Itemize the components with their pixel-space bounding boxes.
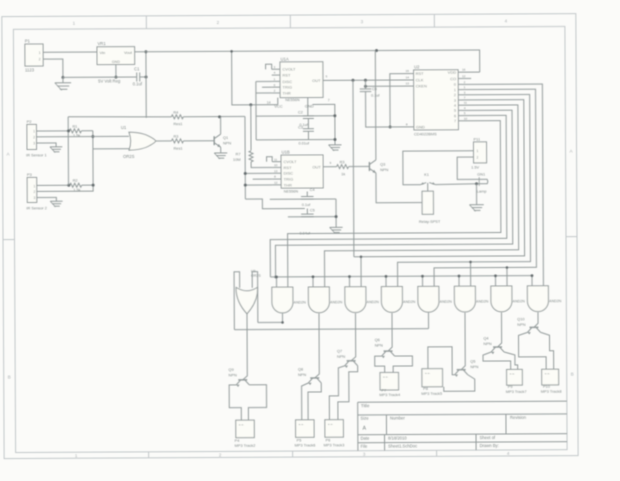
wire P1 pin2 down to ground rail [48, 59, 63, 77]
wire U2 out1 to AND5 right input [433, 89, 536, 286]
wire U2 out5 to rail drop [275, 110, 513, 277]
wire Q3 emitter down to relay coil [376, 173, 422, 203]
svg-text:15: 15 [406, 69, 410, 73]
U1B OUT stub [323, 166, 336, 168]
svg-text:B: B [571, 372, 574, 377]
svg-text:2: 2 [39, 58, 41, 62]
svg-text:NPN: NPN [380, 167, 388, 172]
svg-text:U9: U9 [251, 269, 256, 273]
svg-text:OUT: OUT [312, 164, 321, 169]
connector P2 [27, 124, 37, 149]
svg-text:NE556N: NE556N [284, 190, 299, 194]
P3 pin stubs [37, 184, 42, 186]
junction dot +5V rail at C1 drop [144, 50, 147, 53]
and-gate U6 body [418, 286, 439, 312]
svg-text:Size: Size [360, 416, 369, 421]
svg-text:5: 5 [454, 109, 456, 113]
ground symbol P3 [50, 200, 62, 202]
svg-text:1.5k: 1.5k [73, 187, 80, 192]
title block line under Date row [358, 442, 567, 443]
junction dot C5 row at right vertical [335, 215, 338, 218]
timer U1A body [280, 62, 323, 98]
svg-text:1k: 1k [341, 171, 345, 176]
wire VR1 GND pin down to ground rail [115, 65, 117, 78]
P2 pin stubs [36, 130, 41, 132]
wire C5 bottom row [288, 216, 336, 218]
svg-text:AND2N: AND2N [294, 301, 307, 305]
wire K1 right contact to lamp bottom [435, 183, 476, 186]
junction dot +5V rail at U1A VCC drop [230, 50, 233, 53]
U1A OUT pin stub [323, 79, 329, 81]
junction dot rail drop [274, 276, 277, 279]
svg-text:12: 12 [462, 74, 466, 78]
svg-text:1: 1 [454, 88, 456, 92]
AND gate left input drops [275, 277, 277, 287]
svg-text:=·=·: =·=· [328, 422, 334, 426]
wire P2 pin3 to ground [41, 143, 56, 147]
vertical tie R4 row to DISC THR rows [244, 116, 246, 199]
svg-text:1: 1 [33, 130, 35, 134]
ground symbol lamp [469, 204, 483, 206]
junction dot at ground rail [61, 76, 64, 79]
svg-text:R4: R4 [173, 109, 179, 114]
capacitor C5 [301, 213, 313, 215]
P11 pin stubs [469, 150, 473, 152]
U1B left pin stubs [272, 161, 281, 163]
junction dot R1 row at +5V vertical [67, 129, 70, 132]
ground rail wire from ground to C1 [63, 76, 136, 78]
transistor Q5 [457, 369, 466, 371]
junction dot AND3 branch [360, 255, 363, 258]
svg-text:MP3 Track4: MP3 Track4 [379, 392, 401, 397]
svg-text:Sheet of: Sheet of [480, 435, 496, 440]
svg-text:AND2N: AND2N [403, 300, 416, 304]
vertical wire tying R4 row to sensor rows [67, 117, 69, 185]
U2 left pin stubs [404, 73, 413, 75]
wire P2 pin2 row to OR gate input1 [41, 135, 128, 137]
connector P1 pin2 stub [43, 58, 48, 60]
U1A GND pin lead [307, 98, 309, 116]
svg-text:Q9: Q9 [228, 367, 233, 372]
connector P8 [422, 369, 443, 387]
branch wire to AND6 right input [470, 262, 472, 286]
svg-text:AND2N: AND2N [367, 300, 380, 304]
svg-text:CD4022BMS: CD4022BMS [414, 131, 437, 136]
and-gate U5 body [381, 287, 402, 313]
svg-text:14: 14 [406, 75, 410, 79]
wire P3 pin3 to ground [42, 197, 57, 201]
svg-text:NPN: NPN [375, 343, 383, 348]
svg-text:U1A: U1A [281, 56, 289, 61]
border zone tick top [433, 14, 435, 27]
and-gate U8 body [491, 286, 512, 312]
svg-text:CVOLT: CVOLT [282, 67, 296, 72]
+5V vertical through C1 to R4 row [145, 52, 147, 118]
wire U2 out3 nest line [353, 100, 525, 257]
svg-text:NPN: NPN [517, 322, 525, 327]
junction dot CLK row at AND rail drop [351, 79, 354, 82]
svg-text:VR1: VR1 [97, 41, 106, 46]
title block line under Size row [358, 434, 567, 435]
svg-text:GN1: GN1 [477, 171, 485, 176]
junction dot AND6 branch [469, 261, 472, 264]
svg-text:0.1uf: 0.1uf [302, 203, 311, 207]
svg-text:CKEN: CKEN [416, 84, 427, 89]
svg-text:Q4: Q4 [483, 336, 489, 341]
svg-text:=·=·: =·=· [299, 422, 305, 426]
connector P1 pin1 stub [43, 51, 48, 53]
wire DISC row extension [245, 172, 272, 174]
ground symbol P2 [50, 146, 62, 148]
U1A GND stub wire right [312, 104, 335, 145]
U1A TRIG stub extension [262, 86, 272, 88]
transistor Q1 [213, 136, 215, 145]
svg-text:THR: THR [284, 182, 292, 187]
svg-text:MP3 Track7: MP3 Track7 [506, 389, 527, 394]
U1A DISC THR tie vertical [255, 81, 257, 139]
transistor Q8 [310, 377, 319, 379]
wire P2 pin1 row with R1 [41, 130, 69, 132]
svg-text:AND2N: AND2N [549, 299, 562, 303]
svg-text:U1: U1 [121, 125, 127, 130]
svg-text:DISC: DISC [282, 79, 292, 84]
svg-text:R3: R3 [340, 159, 345, 164]
resistor R3 relay [337, 165, 349, 169]
border zone tick bottom [436, 450, 438, 456]
branch wire to AND7 right input [506, 267, 508, 285]
AND gate shared input rail [270, 276, 532, 277]
wire C6 bottom to U2 GND row [366, 91, 405, 127]
svg-text:C3: C3 [298, 126, 303, 130]
lamp GN1 [476, 179, 487, 183]
and-gate U3 body [308, 287, 329, 313]
junction dot R2 row at +5V vertical [67, 184, 70, 187]
resistor R3 [171, 139, 183, 143]
junction dot C1 +5V [145, 75, 148, 78]
svg-text:4: 4 [454, 104, 456, 108]
svg-text:Number: Number [390, 416, 406, 421]
wire P3 pin2 row [42, 185, 93, 191]
svg-text:VDD: VDD [448, 70, 457, 75]
resistor R1 [69, 129, 81, 133]
connector P10 [542, 369, 559, 385]
junction dot R4 row at Q1 collector [218, 115, 221, 118]
svg-text:7: 7 [328, 98, 330, 102]
svg-text:U2: U2 [414, 64, 420, 69]
wire P11 pin2 to lamp top [457, 157, 479, 180]
wire AND3 output to Q7 [351, 313, 356, 361]
svg-text:K1: K1 [424, 172, 429, 177]
svg-text:P1: P1 [25, 39, 31, 44]
wire Q7 emitter staircase to P6 pin2 [338, 366, 358, 420]
wire Q10 emitter to P10 pin2 [540, 332, 553, 369]
svg-text:Q7: Q7 [337, 348, 342, 353]
svg-text:AND2N: AND2N [440, 300, 453, 304]
svg-text:C1: C1 [134, 66, 140, 71]
border zone tick top [145, 16, 147, 29]
connector P1 [25, 44, 43, 66]
svg-text:2: 2 [33, 190, 35, 194]
svg-text:GND: GND [416, 124, 425, 129]
wire Q1 emitter down to ground [220, 147, 222, 153]
and-gate U2 body [272, 287, 293, 313]
capacitor C1 [136, 73, 138, 82]
wire CLK drop down to nest line [352, 80, 355, 256]
U1A CVOLT hairpin [266, 64, 272, 69]
svg-text:1.5V: 1.5V [471, 164, 479, 169]
svg-text:GND: GND [112, 60, 120, 64]
svg-text:File: File [361, 444, 368, 449]
svg-text:U1B: U1B [282, 150, 290, 155]
wire TRIG row extension [253, 178, 273, 180]
svg-text:13: 13 [406, 82, 410, 86]
svg-text:16: 16 [462, 68, 466, 72]
junction dot RST at GND row [389, 125, 392, 128]
wire AND1 output stub [281, 313, 283, 322]
svg-text:=·=·: =·=· [383, 375, 389, 379]
junction dot THR tie [244, 184, 247, 187]
resistor R4 [171, 115, 183, 119]
svg-text:CO: CO [450, 76, 456, 81]
svg-text:NPN: NPN [470, 364, 478, 369]
svg-text:IR Sensor 1: IR Sensor 1 [26, 152, 47, 157]
wire U2 out7 to AND1 right input [287, 121, 501, 288]
junction dot R2 row right [92, 184, 95, 187]
svg-text:P2: P2 [27, 119, 33, 124]
svg-text:AND2N: AND2N [513, 299, 526, 303]
svg-text:Res1: Res1 [173, 121, 182, 126]
title block line under Title [358, 414, 567, 415]
junction dot +5V rail at Q3 drop [375, 49, 378, 52]
svg-text:10: 10 [274, 163, 278, 167]
svg-text:NE556N: NE556N [285, 98, 300, 102]
svg-text:Sheet1.SchDoc: Sheet1.SchDoc [388, 443, 417, 448]
counter U2 body [414, 70, 459, 130]
and-gate U7 body [454, 286, 475, 312]
ground symbol Q1 [214, 152, 227, 154]
svg-text:=·=·: =·=· [510, 372, 516, 376]
svg-text:R2: R2 [73, 178, 78, 183]
svg-text:RST: RST [416, 71, 425, 76]
wire hairpin1 rail to AND5 output [234, 329, 428, 330]
wire U2 VDD pin [458, 71, 480, 73]
connector P11 [473, 142, 486, 163]
resistor R2 [70, 183, 82, 187]
svg-text:12: 12 [274, 181, 278, 185]
wire R3b to Q3 base [349, 165, 370, 167]
wire DISC-THR tie down jog to C5 top [245, 199, 304, 209]
wire U1A OUT to U2 CLK [329, 79, 404, 81]
transistor Q6 [384, 350, 393, 352]
transistor Q4 [493, 346, 502, 348]
svg-text:0.01uf: 0.01uf [298, 142, 310, 146]
svg-text:7: 7 [454, 119, 456, 123]
wire R4 row [68, 116, 171, 117]
junction dot P2 pin2 row [91, 135, 94, 138]
svg-text:6: 6 [454, 114, 456, 118]
wire Q6 emitter wide to P7 pin2 [393, 356, 412, 373]
transistor Q3 [368, 162, 370, 171]
connector P3 [27, 177, 37, 202]
wire C3 bottom row [307, 131, 309, 139]
svg-text:NPN: NPN [223, 140, 231, 145]
ground symbol U1B caps [330, 226, 343, 228]
C6 top stem [364, 80, 366, 89]
wire U2 out6 to rail west end [270, 115, 507, 277]
svg-text:Revision: Revision [510, 415, 527, 420]
connector P5 [296, 420, 315, 438]
svg-text:Vout: Vout [124, 50, 133, 55]
svg-text:0: 0 [454, 83, 456, 87]
svg-text:1123: 1123 [25, 67, 35, 72]
svg-text:11: 11 [274, 157, 277, 161]
title block divider Sheet col [475, 434, 477, 450]
svg-text:B: B [8, 375, 11, 380]
wire Q6 collector wide to P7 pin1 [375, 356, 385, 372]
+5V rail wire VR1 Vout to U2 VDD corner [135, 50, 480, 74]
wire U2 out2 to AND4 right input [397, 94, 531, 286]
junction dots on AND rail [275, 276, 278, 279]
junction dot VCC row at R7 drop [249, 103, 252, 106]
voltage regulator VR1 box [97, 47, 135, 65]
wire U2 CKEN to C6 vertical [365, 85, 404, 87]
C5 top stem [306, 209, 308, 215]
resistor R7 vertical [249, 151, 253, 162]
svg-text:0.1uf: 0.1uf [371, 93, 380, 97]
wire OR output to Q9 [242, 314, 247, 380]
transistor Q9 [238, 379, 247, 381]
wire branch to OR gate input2 [93, 148, 129, 150]
svg-text:C4: C4 [310, 188, 315, 192]
svg-text:A: A [570, 149, 573, 154]
wire R1 right down to pin2 row [92, 131, 94, 185]
border zone tick left [3, 239, 14, 241]
svg-text:MP3 Track6: MP3 Track6 [295, 442, 316, 447]
connector P7 [380, 372, 399, 390]
transistor Q7 [347, 360, 356, 362]
svg-text:MP3 Track3: MP3 Track3 [324, 442, 345, 447]
svg-text:RST: RST [284, 165, 293, 170]
border zone tick right [566, 236, 577, 238]
connector P6 [325, 420, 344, 438]
junction dot C2 row right [333, 114, 336, 117]
wire AND8 output to Q10 [534, 312, 538, 327]
wire hairpin2 to AND1 output [258, 321, 283, 323]
wire Q5 collector staircase to P8 pin1 [428, 347, 455, 375]
wire VCC branch to R7 and CVOLT [250, 105, 252, 150]
junction dot CKEN at C6 [364, 85, 367, 88]
svg-text:13: 13 [274, 169, 278, 173]
svg-text:Q8: Q8 [298, 366, 303, 371]
title block divider Date/value [384, 435, 386, 451]
wire U2 RST to GND row [390, 74, 405, 127]
junction dot AND7 branch [506, 266, 509, 269]
svg-text:Q6: Q6 [375, 337, 380, 342]
svg-text:AND2N: AND2N [476, 300, 489, 304]
OR gate input hairpin 1 [234, 272, 240, 330]
wire Q8 emitter to P5 pin2 [308, 383, 321, 420]
wire AND2 output to Q8 [314, 313, 319, 378]
svg-text:1: 1 [33, 184, 35, 188]
svg-text:C2: C2 [298, 111, 303, 115]
or-gate U9 body [236, 287, 258, 314]
wire K1 left contact to P11 pin1 [403, 151, 469, 185]
U2 CO stub [458, 77, 471, 79]
svg-text:=·=·: =·=· [545, 372, 551, 376]
svg-text:P3: P3 [27, 172, 33, 177]
border zone tick bottom [292, 451, 294, 457]
svg-text:3: 3 [33, 141, 35, 145]
svg-text:TRIG: TRIG [282, 85, 292, 90]
wire THR row extension [245, 184, 272, 186]
svg-text:0.1uf: 0.1uf [133, 81, 143, 86]
svg-text:Relay-SPST: Relay-SPST [419, 219, 441, 224]
wire Q1 collector up to R4 row [220, 117, 222, 134]
wire Q9 collector loop to P4 pin1 [229, 385, 241, 420]
svg-text:MP3 Track8: MP3 Track8 [541, 389, 562, 394]
svg-text:2: 2 [454, 93, 456, 97]
wire C2 to C3 [307, 119, 309, 129]
wire C2 top row [256, 115, 335, 117]
wire C4 bottom row [270, 198, 336, 200]
capacitor C4 [301, 195, 313, 197]
capacitor C2 [303, 115, 314, 117]
timer U1B body [281, 155, 323, 188]
svg-text:11: 11 [464, 101, 467, 105]
svg-text:NPN: NPN [228, 372, 236, 377]
svg-text:1: 1 [477, 149, 479, 153]
junction dot DISC tie [244, 172, 247, 175]
title block divider Size/Number [385, 415, 387, 435]
svg-text:Q3: Q3 [380, 162, 385, 167]
junction dot sensor vertical at R1 row [67, 130, 70, 133]
svg-text:OUT: OUT [312, 78, 321, 83]
wire Q7 collector staircase to P6 pin1 [329, 366, 345, 420]
svg-text:A: A [7, 152, 10, 157]
ground symbol U1A caps [329, 144, 342, 146]
C4 top stem [306, 192, 308, 197]
svg-text:MP3 Track2: MP3 Track2 [235, 443, 256, 448]
wire AND7 output to Q4 [497, 312, 501, 347]
wire R7 bottom to RST row [251, 162, 272, 168]
svg-text:R3: R3 [173, 134, 178, 139]
svg-text:CVOLT: CVOLT [283, 159, 297, 164]
wire Q4 emitter to P9 pin2 [504, 352, 518, 370]
junction dot lamp bottom [475, 182, 478, 185]
svg-text:A: A [362, 426, 366, 432]
U1A left pin stubs [272, 68, 280, 70]
relay K1 coil box [422, 191, 433, 214]
wire C1 right plate to +5V drop [140, 76, 146, 78]
junction dot C3 row right [333, 138, 336, 141]
svg-text:Res1: Res1 [174, 145, 183, 150]
wire AND5 output stub to rail [427, 313, 429, 329]
svg-text:IR Sensor 2: IR Sensor 2 [26, 205, 47, 210]
svg-text:MP3 Track5: MP3 Track5 [421, 391, 442, 396]
U1A VCC pin lead [277, 98, 279, 105]
svg-text:3: 3 [33, 196, 35, 200]
transistor Q10 [529, 326, 538, 328]
svg-text:Lamp: Lamp [477, 189, 487, 194]
connector P4 [236, 420, 255, 438]
capacitor C6 [360, 88, 371, 90]
svg-text:C5: C5 [310, 208, 315, 212]
wire lamp bottom to ground [476, 184, 478, 205]
wire P1 pin1 to VR1 Vin [48, 51, 97, 53]
svg-text:AND2N: AND2N [330, 300, 343, 304]
svg-text:THR: THR [283, 90, 291, 95]
svg-text:=·=·: =·=· [425, 371, 431, 375]
